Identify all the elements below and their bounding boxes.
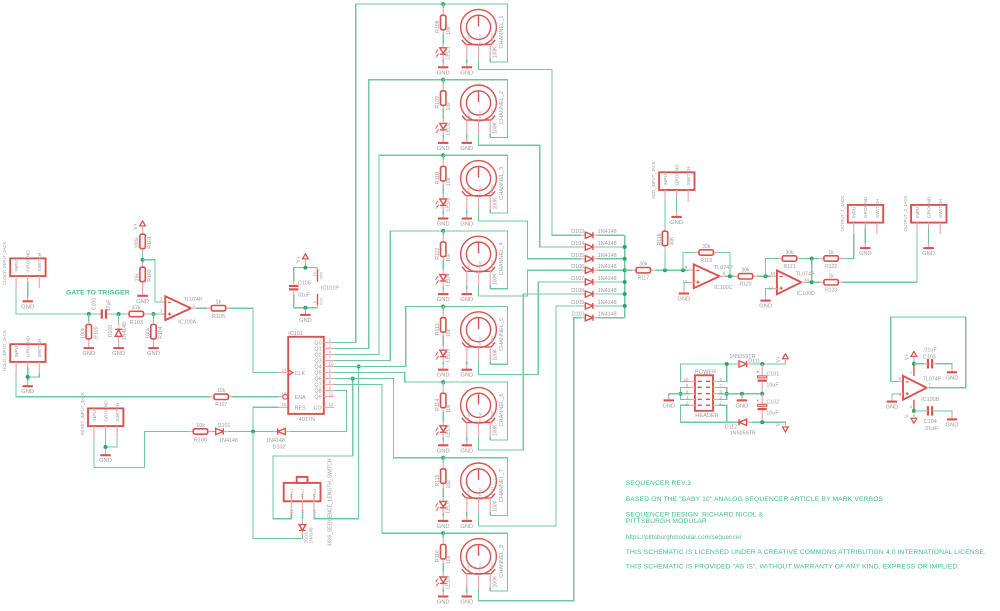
potentiometer CHANNEL_7 <box>461 463 497 499</box>
resistor R100 <box>88 314 90 322</box>
svg-text:INPUT: INPUT <box>852 204 858 218</box>
svg-text:Q7: Q7 <box>314 383 321 389</box>
ground <box>765 296 767 301</box>
wire D102 to Q8 <box>290 391 347 432</box>
svg-text:12: 12 <box>329 402 334 407</box>
ground <box>928 244 930 249</box>
junction V+ rail <box>303 266 307 270</box>
wire R118 to summing node <box>664 249 666 270</box>
svg-text:100K: 100K <box>493 46 499 58</box>
wire divider to op-amp inverting input <box>143 260 161 302</box>
svg-text:BASED ON THE "BABY 10" ANALOG: BASED ON THE "BABY 10" ANALOG SEQUENCER … <box>626 496 884 503</box>
junction sum bus <box>623 257 627 261</box>
svg-text:30k: 30k <box>702 244 711 250</box>
junction divider node <box>141 258 145 262</box>
wire R117 to op-amp C <box>655 269 689 271</box>
svg-text:R101: R101 <box>147 236 153 249</box>
svg-text:LED6: LED6 <box>445 424 451 437</box>
svg-text:GROUND: GROUND <box>927 196 933 218</box>
wire R105 to CLK <box>230 308 278 372</box>
svg-text:100K: 100K <box>493 575 499 587</box>
svg-text:D102: D102 <box>273 444 286 450</box>
svg-text:PIN1: PIN1 <box>467 184 471 192</box>
feedback resistor R119 <box>683 253 695 271</box>
svg-text:INPUT: INPUT <box>14 343 20 357</box>
ground <box>142 291 144 296</box>
power symbol V+ <box>911 352 917 357</box>
IC101 CLK pin <box>278 372 288 374</box>
svg-text:V-: V- <box>904 413 910 418</box>
wire reset input to R106 <box>94 432 189 468</box>
svg-text:GND: GND <box>99 458 112 464</box>
wire pot 6 right pin <box>489 436 491 440</box>
junction V- B <box>912 409 916 413</box>
svg-text:R117: R117 <box>638 276 650 282</box>
resistor R104 <box>153 314 155 322</box>
junction feedback C <box>681 268 685 272</box>
svg-text:R116: R116 <box>435 550 441 562</box>
ground <box>676 212 678 217</box>
wire feedback D vertical <box>811 259 813 283</box>
wire op-amp D noninverting to ground <box>772 288 777 290</box>
svg-text:10k: 10k <box>446 480 452 489</box>
LED LED7 <box>442 487 444 497</box>
ground <box>153 344 155 349</box>
wire pin3 to gnd <box>719 394 727 400</box>
LED LED6 <box>442 412 444 422</box>
svg-text:PIN1: PIN1 <box>467 260 471 268</box>
svg-text:IC100A: IC100A <box>178 319 196 325</box>
ground <box>27 382 29 387</box>
svg-text:PIN2: PIN2 <box>479 110 483 118</box>
svg-text:11: 11 <box>329 391 334 396</box>
ground <box>741 394 743 396</box>
svg-text:GND: GND <box>437 222 450 228</box>
channel 2 node <box>441 78 445 82</box>
op-amp B output stub <box>927 387 929 389</box>
svg-text:GROUND: GROUND <box>863 196 869 218</box>
wire IC101 ground rail <box>294 307 318 309</box>
junction sum bus <box>623 268 627 272</box>
svg-text:30k: 30k <box>741 268 750 274</box>
svg-text:IC100B: IC100B <box>921 397 939 403</box>
feedback resistor R121 <box>766 259 778 277</box>
svg-text:CHANNEL_5: CHANNEL_5 <box>499 318 505 351</box>
svg-text:ADD_INPUT_JACK: ADD_INPUT_JACK <box>651 161 656 199</box>
svg-text:V+: V+ <box>296 256 302 262</box>
svg-text:PIN3: PIN3 <box>490 260 494 268</box>
junction left gnd <box>679 392 683 396</box>
svg-text:1k: 1k <box>828 250 834 256</box>
svg-text:GND: GND <box>460 373 473 379</box>
wire Q0 to channel 1 <box>334 4 443 342</box>
junction node at D100 <box>117 312 121 316</box>
wire op-amp B noninverting to ground <box>898 393 903 395</box>
svg-text:TL074P: TL074P <box>184 297 203 303</box>
jack ADD_INPUT_JACK <box>659 172 694 190</box>
ground <box>442 365 444 370</box>
wire pin8 to gnd rail <box>681 387 690 393</box>
wire V+ to pin4 and C103 <box>913 361 915 364</box>
svg-text:PIN1: PIN1 <box>467 487 471 495</box>
svg-text:THIS SCHEMATIC IS LICENSED UND: THIS SCHEMATIC IS LICENSED UNDER A CREAT… <box>626 549 986 556</box>
svg-text:1k: 1k <box>828 274 834 280</box>
wire hold ground <box>27 367 29 381</box>
ground <box>466 138 468 143</box>
svg-text:PIN3: PIN3 <box>490 184 494 192</box>
svg-text:HOLD_INPUT_JACK: HOLD_INPUT_JACK <box>2 330 7 371</box>
svg-text:GND: GND <box>437 373 450 379</box>
svg-text:IC100D: IC100D <box>797 291 815 297</box>
svg-text:GND: GND <box>759 304 772 310</box>
svg-text:GND: GND <box>437 600 450 606</box>
ground <box>466 365 468 370</box>
LED LED4 <box>442 261 444 271</box>
junction +12 node <box>760 362 764 366</box>
junction sum bus <box>623 280 627 284</box>
channel 8 node <box>441 531 445 535</box>
svg-text:TL074P: TL074P <box>923 377 942 383</box>
svg-text:CHANNEL_1: CHANNEL_1 <box>499 16 505 49</box>
svg-text:IC101: IC101 <box>288 331 303 337</box>
svg-text:PIN2: PIN2 <box>479 337 483 345</box>
svg-text:10: 10 <box>682 279 687 284</box>
wire D101 to D102 <box>228 431 274 433</box>
svg-text:GROUND: GROUND <box>26 336 32 358</box>
ground <box>442 290 444 295</box>
svg-text:R106: R106 <box>194 437 207 443</box>
svg-text:R120: R120 <box>740 282 752 288</box>
wire pot 4 wiper route <box>479 270 582 296</box>
svg-text:GND: GND <box>946 375 959 381</box>
wire pin9 to +12 rail <box>719 364 727 382</box>
channel 7 node <box>441 456 445 460</box>
junction output C <box>728 274 732 278</box>
wire pot 1 wiper route <box>479 58 582 235</box>
resistor R114 <box>442 382 444 386</box>
junction sum bus <box>623 304 627 308</box>
wire pot 7 left pin to ground <box>466 512 468 516</box>
diode D100 <box>118 314 120 322</box>
ground <box>88 344 90 349</box>
IC IC101 4017N <box>288 337 324 414</box>
svg-text:10: 10 <box>329 361 334 366</box>
svg-text:GND: GND <box>112 351 125 357</box>
junction sum bus <box>623 292 627 296</box>
jack OUTPUT_1_JACK <box>848 205 883 223</box>
svg-text:R104: R104 <box>158 326 164 339</box>
resistor R116 <box>442 533 444 537</box>
svg-text:R108: R108 <box>435 20 441 33</box>
svg-text:GND: GND <box>437 297 450 303</box>
junction top rail <box>725 362 729 366</box>
svg-text:1N4148: 1N4148 <box>598 241 617 247</box>
wire add jack ground <box>676 196 678 213</box>
svg-text:16: 16 <box>313 272 317 276</box>
resistor R112 <box>442 231 444 235</box>
svg-text:INPUT: INPUT <box>915 204 921 218</box>
wire output1 ground <box>864 228 866 244</box>
svg-text:D108: D108 <box>571 288 584 294</box>
wire feedback box IC100B <box>891 317 966 388</box>
svg-text:100K: 100K <box>493 499 499 511</box>
svg-text:C101: C101 <box>766 371 779 377</box>
svg-text:GND: GND <box>437 146 450 152</box>
resistor R122 <box>820 258 824 260</box>
ground <box>442 441 444 446</box>
svg-text:PIN1: PIN1 <box>467 562 471 570</box>
wire pot 8 right pin <box>489 588 491 592</box>
svg-text:D110: D110 <box>572 312 585 318</box>
svg-text:1N4148: 1N4148 <box>266 438 285 444</box>
wire D107 to sum bus <box>598 281 625 283</box>
svg-text:1N4148: 1N4148 <box>309 527 314 544</box>
wire R119 to output C <box>718 253 730 277</box>
wire hold switch to ground <box>28 374 40 377</box>
diode D110 <box>581 317 585 319</box>
IC101 CO pin <box>324 406 334 408</box>
channel 3 node <box>441 153 445 157</box>
channel 6 node <box>441 380 445 384</box>
svg-text:GROUND: GROUND <box>26 250 32 272</box>
svg-text:CO: CO <box>314 405 322 411</box>
svg-text:PIN1: PIN1 <box>467 411 471 419</box>
ground <box>466 441 468 446</box>
wire D103 to sum bus <box>598 234 625 236</box>
wire reset switch to ground <box>106 438 118 447</box>
jack CLOCK_INPUT_JACK <box>10 258 45 276</box>
power symbol V- <box>911 418 917 423</box>
wire pot 3 right pin <box>489 210 491 214</box>
wire pot 3 wiper route <box>479 210 582 259</box>
wire op-amp D output <box>801 281 806 283</box>
svg-text:R115: R115 <box>435 474 441 486</box>
junction right gnd <box>725 392 729 396</box>
IC101 ENA pin <box>279 396 282 398</box>
svg-text:ENA: ENA <box>295 395 306 401</box>
junction hold ground <box>26 375 30 379</box>
svg-text:LED4: LED4 <box>445 273 451 286</box>
op-amp IC100B <box>898 381 903 383</box>
wire pin1 to -12 rail <box>719 405 727 422</box>
capacitor C100 <box>98 313 102 315</box>
resistor R120 <box>734 275 738 277</box>
junction node at R104 <box>152 312 156 316</box>
svg-text:R123: R123 <box>825 288 837 294</box>
wire D112 to V- <box>751 421 785 424</box>
svg-text:CHANNEL_8: CHANNEL_8 <box>499 545 505 578</box>
svg-text:GND: GND <box>662 403 675 409</box>
diode D112 <box>737 421 739 423</box>
svg-text:LED1: LED1 <box>445 46 451 59</box>
svg-text:GROUND: GROUND <box>675 164 681 186</box>
svg-text:10k: 10k <box>217 388 226 394</box>
wire D110 to sum bus <box>598 317 625 319</box>
potentiometer CHANNEL_4 <box>461 236 497 272</box>
wire R122 to output jack 1 <box>843 234 854 258</box>
ground <box>105 451 107 456</box>
wire switch PIN3 to Q4 <box>314 367 359 519</box>
ground <box>304 308 306 311</box>
svg-text:14: 14 <box>804 277 809 282</box>
resistor R105 <box>207 307 211 309</box>
resistor R101 <box>142 231 144 235</box>
op-amp IC100A <box>161 301 166 303</box>
svg-text:PIN3: PIN3 <box>490 562 494 570</box>
wire switch common to reset net <box>253 432 302 539</box>
wire channel 8 top and feedback box <box>443 533 507 591</box>
resistor R102 <box>142 263 144 267</box>
svg-text:1N4148: 1N4148 <box>598 276 617 282</box>
LED LED8 <box>442 563 444 573</box>
svg-text:4: 4 <box>909 372 913 374</box>
svg-text:10uF: 10uF <box>766 382 779 388</box>
svg-text:GND: GND <box>460 297 473 303</box>
svg-text:GND: GND <box>460 600 473 606</box>
svg-text:1N5059TR: 1N5059TR <box>730 430 756 436</box>
diode D111 <box>737 363 739 365</box>
svg-text:GATE TO TRIGGER: GATE TO TRIGGER <box>66 290 130 297</box>
wire add jack input to R118 <box>664 202 666 228</box>
svg-text:SWITCH: SWITCH <box>37 338 43 357</box>
svg-text:C105: C105 <box>298 280 311 286</box>
svg-text:15: 15 <box>282 402 287 407</box>
svg-text:RESET_INPUT_JACK: RESET_INPUT_JACK <box>80 392 85 435</box>
svg-text:OUTPUT_2_JACK: OUTPUT_2_JACK <box>903 196 908 232</box>
svg-text:1N4148: 1N4148 <box>598 288 617 294</box>
wire pin6 to ground <box>669 393 690 395</box>
jack RESET_INPUT_JACK <box>88 408 123 426</box>
svg-text:R122: R122 <box>825 264 837 270</box>
svg-text:GND: GND <box>677 297 690 303</box>
svg-text:PIN3: PIN3 <box>490 487 494 495</box>
svg-text:10k: 10k <box>196 423 205 429</box>
ground <box>466 63 468 68</box>
capacitor C104 <box>914 410 924 412</box>
wire clock jack ground <box>27 282 29 297</box>
svg-text:LED7: LED7 <box>445 500 451 513</box>
RES net wire <box>253 407 278 431</box>
svg-text:THIS SCHEMATIC IS PROVIDED "AS: THIS SCHEMATIC IS PROVIDED "AS IS", WITH… <box>626 563 960 570</box>
svg-text:47pF: 47pF <box>107 299 113 311</box>
svg-text:GND: GND <box>21 389 34 395</box>
svg-text:INPUT: INPUT <box>663 171 669 185</box>
op-amp IC100C <box>689 269 694 271</box>
ground <box>683 289 685 294</box>
diode D104 <box>581 246 585 248</box>
wire pot 7 wiper route <box>479 306 582 526</box>
resistor R109 <box>442 80 444 84</box>
svg-text:Q9: Q9 <box>314 395 321 401</box>
svg-text:Q2: Q2 <box>314 353 321 359</box>
svg-text:V+: V+ <box>776 356 782 362</box>
capacitor C101 <box>761 364 763 376</box>
svg-text:PIN2: PIN2 <box>479 412 483 420</box>
svg-text:HEADER: HEADER <box>695 413 718 419</box>
svg-text:OUTPUT_1_JACK: OUTPUT_1_JACK <box>840 196 845 232</box>
junction V+ B <box>912 362 916 366</box>
svg-text:R112: R112 <box>435 248 441 260</box>
svg-text:PIN1: PIN1 <box>467 33 471 41</box>
junction node at R100 <box>87 312 91 316</box>
diode D107 <box>581 281 585 283</box>
svg-text:POWER: POWER <box>695 369 716 375</box>
diode D105 <box>581 258 585 260</box>
svg-text:SWITCH: SWITCH <box>686 166 692 185</box>
svg-text:GND: GND <box>21 304 34 310</box>
wire R103 to op-amp noninverting input <box>148 313 161 315</box>
channel 1 node <box>441 2 445 6</box>
LED LED1 <box>442 34 444 44</box>
wire R121 to R122 and output D <box>800 258 820 260</box>
svg-text:GND: GND <box>460 524 473 530</box>
svg-text:GND: GND <box>82 351 95 357</box>
svg-text:LED5: LED5 <box>445 349 451 362</box>
svg-text:GND: GND <box>859 251 872 257</box>
svg-text:R109: R109 <box>435 96 441 109</box>
svg-text:PIN2: PIN2 <box>479 488 483 496</box>
wire channel 1 top and feedback box <box>443 4 507 62</box>
svg-text:PIN3: PIN3 <box>490 336 494 344</box>
svg-text:PIN1: PIN1 <box>467 336 471 344</box>
svg-text:PIN3: PIN3 <box>490 33 494 41</box>
wire clock row C100 to R103 <box>89 313 98 315</box>
svg-text:INPUT: INPUT <box>92 407 98 421</box>
wire D105 to sum bus <box>598 258 625 260</box>
svg-text:SWITCH: SWITCH <box>37 252 43 271</box>
svg-text:CLK: CLK <box>295 371 306 377</box>
svg-text:100k: 100k <box>81 327 87 339</box>
wire R107 to ENA <box>233 396 279 398</box>
wire Q4 to channel 5 <box>334 307 443 367</box>
svg-text:SWITCH: SWITCH <box>875 199 881 218</box>
wire pot 2 right pin <box>489 134 491 138</box>
svg-text:13: 13 <box>282 392 287 397</box>
svg-text:GND: GND <box>460 222 473 228</box>
svg-text:GROUND: GROUND <box>103 400 109 422</box>
diode D103 <box>581 234 585 236</box>
wire channel 7 top and feedback box <box>443 458 507 516</box>
svg-text:GND: GND <box>460 70 473 76</box>
ground <box>466 214 468 219</box>
potentiometer CHANNEL_8 <box>461 539 497 575</box>
svg-text:1N4148: 1N4148 <box>598 300 617 306</box>
wire reset ground <box>105 432 107 451</box>
wire D111 to V+ <box>751 362 785 365</box>
svg-text:SWITCH: SWITCH <box>115 402 121 421</box>
junction R118 bottom <box>663 268 667 272</box>
wire pot 5 left pin to ground <box>466 361 468 365</box>
wire R123 to output jack 2 <box>843 234 917 282</box>
svg-text:LED8: LED8 <box>445 576 451 589</box>
svg-text:D100: D100 <box>108 325 114 338</box>
svg-text:PIN1: PIN1 <box>467 109 471 117</box>
wire D108 to sum bus <box>598 293 625 295</box>
wire D104 to sum bus <box>598 246 625 248</box>
wire Q1 to channel 2 <box>334 80 443 349</box>
wire V+ to R101 <box>142 229 144 232</box>
junction reset net <box>251 430 255 434</box>
svg-text:D107: D107 <box>571 276 584 282</box>
channel 5 node <box>441 305 445 309</box>
svg-text:14: 14 <box>282 367 287 372</box>
ground <box>466 592 468 597</box>
svg-text:8: 8 <box>313 301 317 303</box>
wire channel 6 top and feedback box <box>443 382 507 440</box>
svg-text:GND: GND <box>136 299 149 305</box>
svg-text:VDD: VDD <box>320 272 324 280</box>
jack HOLD_INPUT_JACK <box>10 344 45 362</box>
